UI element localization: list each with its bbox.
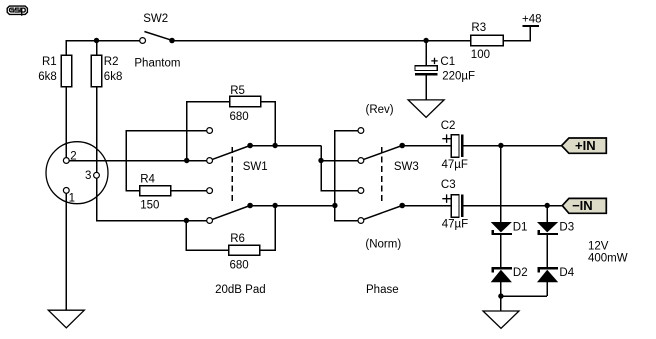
capacitor C2 — [451, 135, 463, 158]
wire R5 left leg — [187, 102, 230, 161]
svg-text:6k8: 6k8 — [38, 71, 57, 83]
pin 1 — [63, 188, 69, 194]
junction top rail / C1 — [423, 38, 428, 43]
pin 3 — [94, 172, 100, 178]
wire C2 to +IN — [464, 145, 563, 147]
svg-text:6k8: 6k8 — [104, 71, 123, 83]
wire R6 right leg — [260, 206, 275, 251]
svg-text:(Norm): (Norm) — [365, 239, 401, 251]
polarity + (C2) — [442, 134, 451, 143]
svg-text:R1: R1 — [42, 56, 57, 68]
capacitor C3 — [451, 195, 463, 218]
svg-text:+48: +48 — [522, 14, 542, 26]
ground (clamp) — [483, 311, 519, 328]
resistor R5 — [230, 96, 261, 106]
node -IN tag — [562, 198, 606, 214]
resistor R6 — [229, 245, 260, 255]
svg-text:220µF: 220µF — [442, 71, 475, 83]
wire pin 1 to ground — [65, 193, 67, 310]
svg-text:D4: D4 — [559, 267, 574, 279]
wire ground drop (clamp) — [500, 296, 502, 311]
wire C1 to ground — [425, 76, 427, 100]
wire R3 to +48 terminal — [503, 27, 530, 41]
diode D4 (zener) — [537, 267, 558, 282]
svg-text:D1: D1 — [513, 222, 528, 234]
svg-text:R3: R3 — [471, 22, 486, 34]
svg-text:D2: D2 — [513, 267, 528, 279]
wire SW1 lower pole to SW3 — [250, 205, 335, 207]
junction R6 right / lower pole — [272, 203, 277, 208]
junction pin3 / R6 left — [184, 218, 189, 223]
wire C1 drop from top rail — [425, 41, 427, 66]
node +IN tag — [562, 138, 607, 153]
junction clamp ground — [498, 293, 503, 298]
junction R5 right / upper pole — [272, 143, 277, 148]
capacitor C1 — [415, 66, 437, 76]
switch SW1 upper section — [207, 128, 253, 164]
svg-text:R5: R5 — [230, 85, 245, 97]
svg-text:C1: C1 — [440, 56, 455, 68]
wire pin 3 down and right to SW1 lower section — [97, 178, 207, 220]
svg-text:R4: R4 — [140, 173, 155, 185]
switch SW2 — [140, 32, 175, 44]
svg-text:1: 1 — [69, 193, 75, 205]
wire SW3 lower pole to C3 — [402, 205, 451, 207]
wire SW3 upper pole to C2 — [402, 145, 451, 147]
svg-text:12V: 12V — [588, 240, 609, 252]
svg-text:47µF: 47µF — [442, 159, 468, 171]
svg-text:C2: C2 — [441, 120, 456, 132]
switch SW3 upper section — [358, 128, 405, 164]
resistor R4 — [140, 186, 171, 196]
junction net B entry — [332, 203, 337, 208]
junction C3 out / D3 chain — [545, 203, 550, 208]
svg-text:SW3: SW3 — [394, 161, 419, 173]
wire top rail left (R1 corner to SW2) — [66, 41, 139, 56]
resistor R3 — [471, 35, 503, 45]
wire T2 stub — [321, 160, 358, 162]
terminal +48 bar — [523, 25, 540, 27]
wire +IN net down to D1 — [500, 146, 502, 223]
wire junction to SW1 throw (upper section lower contact) — [187, 160, 207, 162]
SW3 gang dashed link — [381, 147, 383, 204]
wire D4 to clamp bottom link — [546, 282, 548, 296]
resistor R1 — [61, 55, 71, 87]
svg-text:−IN: −IN — [572, 198, 593, 213]
svg-text:150: 150 — [140, 199, 159, 211]
svg-text:+IN: +IN — [575, 138, 596, 153]
wire net A corner into SW3 throws (T2,T3) — [321, 146, 358, 191]
svg-text:Phantom: Phantom — [134, 57, 180, 69]
wire net B vertical to T1 and T4 — [335, 131, 358, 221]
wire R2 to XLR pin 3 — [96, 87, 98, 172]
svg-text:3: 3 — [85, 170, 91, 182]
svg-text:680: 680 — [230, 111, 249, 123]
diode D1 (zener) — [491, 222, 512, 235]
wire -IN net down to D3 — [546, 206, 548, 223]
diode D3 (zener) — [537, 222, 558, 235]
pin 2 — [63, 158, 69, 164]
wire top rail right (SW2 to R3) — [172, 40, 471, 42]
ground (XLR pin 1) — [48, 310, 84, 328]
svg-text:D3: D3 — [559, 222, 574, 234]
svg-text:SW2: SW2 — [143, 13, 168, 25]
wire SW1 upper throw stub / R4 left leg — [126, 131, 206, 191]
svg-text:C3: C3 — [441, 179, 456, 191]
polarity + (C1) — [431, 58, 437, 64]
wire D3 to D4 — [546, 235, 548, 267]
junction pin2 / R5 left — [184, 158, 189, 163]
wire R4 right leg — [171, 190, 207, 192]
connector XLR shell — [46, 142, 108, 204]
svg-text:47µF: 47µF — [442, 218, 468, 230]
switch SW1 lower section — [207, 188, 253, 224]
wire junction down to R6 — [186, 221, 228, 251]
junction top rail / R2 — [94, 38, 99, 43]
svg-text:R6: R6 — [230, 233, 245, 245]
wire D1 to D2 — [500, 235, 502, 267]
wire clamp bottom link — [501, 295, 547, 297]
wire R1 to XLR pin 2 — [65, 87, 67, 158]
svg-text:(Rev): (Rev) — [366, 104, 394, 116]
junction net A / T2 stub — [318, 158, 323, 163]
switch SW3 lower section — [358, 188, 405, 224]
svg-text:680: 680 — [230, 259, 249, 271]
svg-text:20dB Pad: 20dB Pad — [215, 284, 266, 296]
junction C2 out / D1 chain — [498, 143, 503, 148]
svg-text:400mW: 400mW — [588, 252, 628, 264]
polarity + (C3) — [442, 194, 451, 203]
SW1 gang dashed link — [231, 147, 233, 204]
wire R5 right leg — [261, 102, 276, 146]
wire D2 to ground junction — [500, 282, 502, 296]
svg-text:100: 100 — [471, 49, 490, 61]
svg-text:Phase: Phase — [366, 284, 399, 296]
diode D2 (zener) — [491, 267, 512, 282]
svg-text:R2: R2 — [104, 56, 119, 68]
svg-text:SW1: SW1 — [243, 161, 268, 173]
ground (C1) — [408, 100, 444, 117]
wire R2 drop from top rail — [96, 41, 98, 56]
wire pin 2 to SW1 pole junction — [69, 160, 187, 162]
wire C3 to -IN — [464, 205, 563, 207]
resistor R2 — [91, 55, 101, 87]
wire SW1 upper pole to SW3 — [250, 145, 321, 147]
ESP logo — [7, 6, 27, 16]
